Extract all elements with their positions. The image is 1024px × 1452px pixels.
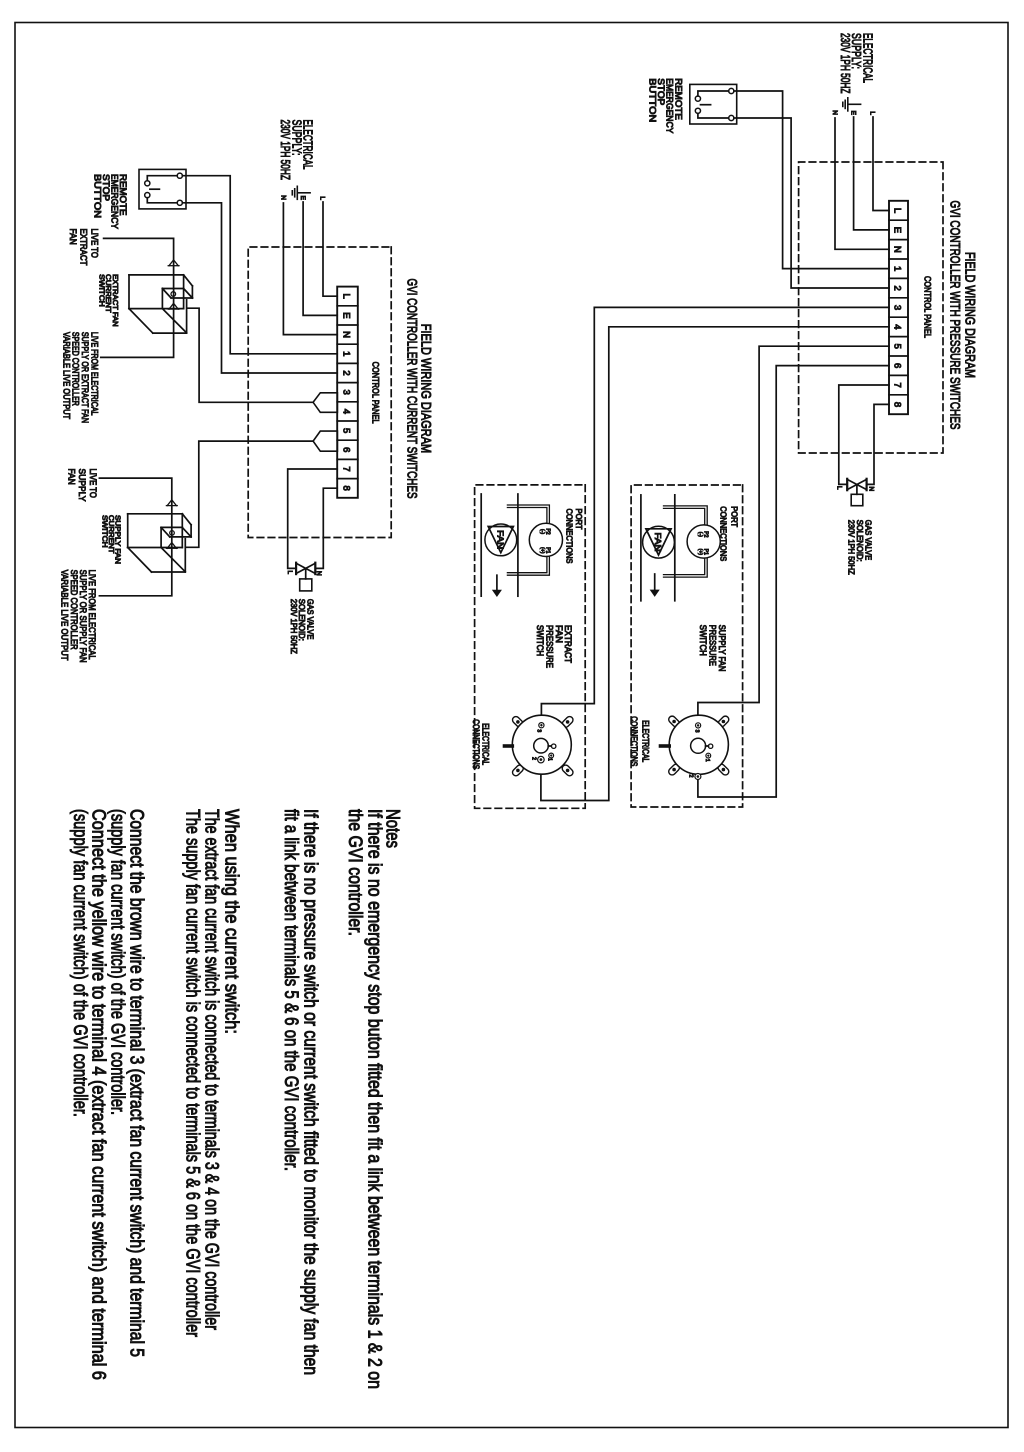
svg-text:PORT: PORT [730,506,740,527]
svg-text:FAN: FAN [496,530,506,549]
svg-text:230V 1PH 50HZ: 230V 1PH 50HZ [289,599,299,654]
control panel dashed enclosure (pressure) [799,162,943,453]
svg-text:BUTTON: BUTTON [91,174,102,218]
wire stop button to terminal 2 (current) [182,203,337,373]
gas valve solenoid symbol (current) [314,563,316,574]
conductor through extract current switch (live to extract fan) [101,238,174,357]
svg-text:L: L [286,571,293,575]
svg-text:N: N [315,571,322,576]
svg-text:If there is no pressure switch: If there is no pressure switch or curren… [300,809,321,1375]
svg-text:GVI CONTROLLER WITH CURRENT SW: GVI CONTROLLER WITH CURRENT SWITCHES [405,279,421,499]
duct lines supply fan [674,495,676,601]
current direction arrow supply 2 [167,543,176,549]
svg-text:4: 4 [341,409,352,414]
svg-text:Connect the yellow wire to ter: Connect the yellow wire to terminal 4 (e… [88,809,109,1380]
svg-text:230V 1PH 50HZ: 230V 1PH 50HZ [838,33,853,94]
link connector terminals 3-4 [313,393,337,413]
svg-text:SWITCH: SWITCH [698,625,708,656]
svg-text:CONNECTIONS: CONNECTIONS [629,716,639,766]
svg-text:EXTRACT: EXTRACT [78,229,89,266]
fan symbol supply [643,526,675,558]
extract fan pressure switch dashed box [475,485,586,808]
svg-text:SUPPLY FAN: SUPPLY FAN [717,625,727,672]
wire link 5-6 to supply current switch [186,441,314,547]
svg-text:4: 4 [892,324,903,329]
control panel dashed enclosure (current) [248,247,391,538]
svg-text:3: 3 [892,305,903,310]
wire E supply to terminal E (current) [303,202,337,315]
svg-text:FIELD WIRING DIAGRAM: FIELD WIRING DIAGRAM [963,252,979,378]
svg-text:SWITCH: SWITCH [97,274,106,307]
wire N supply to terminal N [835,118,889,249]
svg-text:1: 1 [704,759,710,762]
sensing tube left supply [664,506,708,525]
current direction arrow extract 2 [169,303,178,309]
svg-text:N: N [341,331,352,338]
svg-text:(supply fan current switch) of: (supply fan current switch) of the GVI c… [69,809,90,1117]
svg-text:PRESSURE: PRESSURE [708,625,718,666]
svg-text:(-): (-) [539,529,545,534]
svg-text:N: N [280,195,287,200]
supply fan current switch symbol [128,513,183,515]
wire stop button to terminal 1 (current) [182,176,337,354]
sensing tube left extract [507,505,549,523]
svg-text:the GVI controller.: the GVI controller. [344,809,365,936]
wire terminal 8 to gas valve N (current) [316,488,338,568]
svg-text:LIVE TO: LIVE TO [87,469,98,498]
wire L supply to terminal L (current) [323,202,337,296]
svg-text:N: N [831,110,838,115]
fan symbol extract [485,524,517,556]
wire stop button to terminal 2 [734,118,889,288]
svg-text:VARIABLE LIVE OUTPUT: VARIABLE LIVE OUTPUT [60,332,71,419]
svg-text:1: 1 [892,266,903,271]
svg-text:ELECTRICAL: ELECTRICAL [481,723,491,765]
svg-text:E: E [850,111,857,116]
wire link 3-4 to extract current switch [187,308,313,402]
remote emergency stop button (current) [139,169,186,209]
svg-text:SWITCH: SWITCH [535,625,545,656]
svg-text:PORT: PORT [574,509,584,530]
sensing tube right extract [507,557,549,576]
svg-text:5: 5 [892,344,903,349]
svg-text:N: N [892,246,903,253]
svg-text:The extract fan current switch: The extract fan current switch is connec… [201,809,222,1331]
wire terminal 3 to extract pressure switch term 3 [541,307,889,722]
svg-text:PRESSURE: PRESSURE [545,625,555,668]
gas valve solenoid symbol (pressure) [865,479,867,490]
port connections circle supply [687,525,720,558]
wire terminal 5 to supply pressure switch term 3 [698,346,889,722]
svg-text:CONTROL PANEL: CONTROL PANEL [923,276,933,338]
wire L supply to terminal L [873,117,889,211]
svg-text:(+): (+) [697,549,703,556]
wire N supply to terminal N (current) [283,203,337,335]
svg-text:E: E [892,227,903,233]
svg-text:CONNECTIONS: CONNECTIONS [719,506,729,561]
wire terminal 8 to gas valve N [867,404,889,484]
svg-text:fit a link between terminals 5: fit a link between terminals 5 & 6 on th… [280,809,301,1171]
svg-text:(+): (+) [539,547,545,554]
svg-text:CONNECTIONS: CONNECTIONS [471,719,481,769]
svg-text:L: L [869,111,876,115]
svg-text:L: L [836,486,843,490]
svg-text:SWITCH: SWITCH [100,515,109,548]
port connections circle extract [529,523,562,556]
svg-text:2: 2 [341,370,352,375]
svg-text:7: 7 [341,466,352,471]
svg-text:(-): (-) [697,532,703,537]
svg-text:If there is no emergency stop: If there is no emergency stop buton fitt… [364,809,385,1389]
svg-text:VARIABLE LIVE OUTPUT: VARIABLE LIVE OUTPUT [59,570,70,661]
svg-text:FAN: FAN [554,625,564,643]
terminal strip L E N 1-8 (pressure) [889,201,908,414]
extract fan current switch symbol [129,274,184,276]
duct lines extract fan [517,494,519,596]
conductor through supply current switch (live to supply fan) [99,478,171,596]
supply fan pressure switch dashed box [631,485,743,807]
wire stop button to terminal 1 [734,91,889,269]
current direction arrow extract 1 [169,260,178,266]
svg-text:6: 6 [892,363,903,368]
svg-text:5: 5 [341,428,352,433]
current direction arrow supply 1 [167,500,176,506]
svg-text:GVI CONTROLLER WITH PRESSURE S: GVI CONTROLLER WITH PRESSURE SWITCHES [947,201,963,430]
wire terminal 4 to extract pressure switch term 2 [541,327,889,801]
svg-text:FAN: FAN [67,229,78,245]
terminal strip L E N 1-8 (current) [337,287,358,498]
wire terminal 7 to gas valve L (current) [288,469,338,568]
svg-text:L: L [892,208,903,213]
ground (earth) symbol supply [848,103,861,105]
svg-text:1: 1 [341,351,352,356]
svg-text:The supply fan current switch: The supply fan current switch is connect… [181,809,202,1338]
svg-text:E: E [341,312,352,318]
svg-text:230V 1PH 50HZ: 230V 1PH 50HZ [847,520,857,575]
svg-text:L: L [319,196,326,200]
svg-text:L: L [341,294,352,299]
svg-text:When using the current switch:: When using the current switch: [220,809,241,1034]
svg-text:CONTROL PANEL: CONTROL PANEL [370,362,380,424]
airflow arrow supply duct [654,574,656,591]
svg-text:N: N [868,487,875,492]
svg-text:3: 3 [341,390,352,395]
svg-text:2: 2 [531,757,537,760]
electrical connections circle extract [561,715,575,729]
wire E supply to terminal E [854,117,889,230]
sensing tube right supply [664,558,708,577]
svg-text:SUPPLY: SUPPLY [76,469,87,503]
airflow arrow extract duct [496,575,498,591]
ground (earth) symbol supply (current) [297,192,310,194]
svg-text:2: 2 [892,285,903,290]
svg-text:Connect the brown wire to term: Connect the brown wire to terminal 3 (ex… [126,809,147,1357]
svg-text:2: 2 [688,775,694,778]
link connector terminals 5-6 [313,431,337,451]
svg-text:E: E [299,196,306,201]
svg-text:BUTTON: BUTTON [646,78,657,122]
svg-text:1: 1 [547,758,553,761]
electrical connections circle supply [717,715,731,729]
remote emergency stop button (pressure) [690,84,737,124]
svg-text:3: 3 [693,730,699,733]
svg-text:FAN: FAN [65,469,76,485]
svg-text:LIVE TO: LIVE TO [88,229,99,258]
svg-text:8: 8 [892,402,903,407]
svg-text:8: 8 [341,486,352,491]
svg-text:ELECTRICAL: ELECTRICAL [641,720,651,762]
svg-text:230V 1PH 50HZ: 230V 1PH 50HZ [278,120,293,181]
wire terminal 7 to gas valve L [839,385,889,484]
svg-text:FAN: FAN [653,533,663,552]
svg-text:6: 6 [341,447,352,452]
wire terminal 6 to supply pressure switch term 2 [698,366,889,797]
svg-text:7: 7 [892,382,903,387]
svg-text:3: 3 [536,729,542,732]
svg-text:CONNECTIONS: CONNECTIONS [565,509,575,564]
